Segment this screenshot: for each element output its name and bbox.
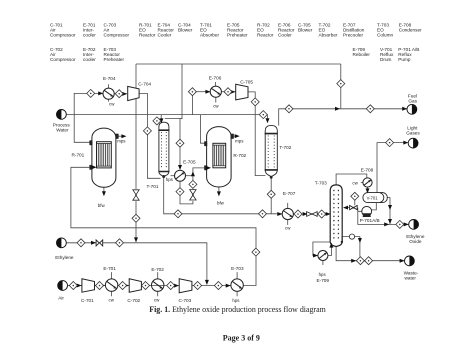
node T-701 water inlet arrow [159, 118, 163, 123]
pump P-701 A/B [362, 206, 372, 217]
svg-text:Water: Water [56, 128, 69, 133]
wire R-702 bfw stub [218, 187, 220, 195]
node arrow ethylene join air [205, 280, 209, 285]
node diamond E-706 out [224, 88, 232, 96]
node diamond E-706 feed [188, 88, 196, 96]
wire E-704 top stub [107, 84, 109, 88]
node E-701 inlet arrow [100, 284, 105, 288]
svg-text:R-701: R-701 [72, 152, 85, 157]
wire T-701 bottoms to header [164, 177, 283, 214]
svg-text:E-708: E-708 [361, 167, 374, 172]
node diamond T-701 bottoms [174, 210, 182, 218]
svg-text:Blower: Blower [298, 27, 313, 32]
svg-text:bfw: bfw [98, 203, 106, 208]
node C-704 inlet arrow [122, 92, 127, 96]
node diamond combined feed [214, 282, 222, 290]
svg-text:cw: cw [213, 104, 219, 109]
svg-text:cooler: cooler [83, 32, 96, 37]
wire C-704 bottom recycle to feed [135, 99, 137, 242]
node arrow side pot down [358, 238, 362, 243]
svg-text:R-702: R-702 [233, 153, 246, 158]
node arrow after E-707 [303, 212, 308, 216]
node diamond recycle valve [132, 214, 140, 222]
node diamond EO product [396, 220, 404, 228]
svg-text:Reactor: Reactor [257, 32, 274, 37]
node T-702 water inlet arrow [266, 118, 270, 123]
node diamond ethylene 2 [116, 239, 124, 247]
wire R-702 effluent riser [192, 96, 205, 144]
wire E-708 to V-701 [367, 187, 369, 191]
wire E-705 outlet loop to R-702 [180, 168, 205, 204]
node T-703 feed arrow [326, 212, 331, 216]
node diamond ethylene feed [77, 239, 85, 247]
svg-text:cw: cw [285, 226, 291, 231]
node diamond T-702 water [259, 111, 267, 119]
svg-text:Pump: Pump [398, 57, 411, 62]
node arrow wastewater mid [351, 259, 356, 263]
wire header to T-703 feed [293, 213, 330, 215]
valve R-702 feed [190, 190, 196, 200]
wire feed header from E-703 [71, 167, 256, 285]
node diamond R-702 feed [189, 180, 197, 188]
node diamond T-701 water [153, 117, 161, 125]
wire ethylene line [66, 243, 207, 284]
valve T-703 feed [307, 212, 318, 217]
node diamond air feed [69, 282, 77, 290]
svg-text:Cooler: Cooler [278, 32, 292, 37]
wire E-707 bottom stub [287, 220, 289, 225]
svg-text:E-705: E-705 [183, 160, 196, 165]
wire EO product line [404, 223, 409, 225]
svg-text:Drum: Drum [380, 57, 392, 62]
valve recycle to feed [133, 190, 139, 200]
node diamond fuel gas [366, 105, 374, 113]
node diamond E-705 out [176, 188, 184, 196]
svg-text:Reactor: Reactor [139, 32, 156, 37]
svg-text:C-704: C-704 [138, 82, 151, 87]
svg-text:Condenser: Condenser [399, 27, 422, 32]
wire E-705 right stub [186, 175, 193, 177]
svg-text:Page 3 of 9: Page 3 of 9 [223, 334, 260, 343]
node diamond after C-702 [142, 282, 150, 290]
heat-exchanger E-706 [210, 86, 221, 97]
node T-703 reflux arrow [343, 206, 348, 210]
node diamond header [259, 210, 267, 218]
svg-text:E-703: E-703 [231, 266, 244, 271]
wire R-701 effluent to E-704 [74, 93, 103, 142]
svg-text:Reboiler: Reboiler [353, 52, 371, 57]
node R-702 feed arrow [206, 166, 211, 170]
heat-exchanger E-701 [105, 279, 117, 291]
node ethylene valve arrow [91, 241, 96, 245]
svg-text:Preheater: Preheater [104, 57, 125, 62]
compressor C-701 [82, 279, 95, 292]
compressor C-702 [129, 279, 141, 292]
wire E-709 bottom stub [322, 261, 324, 266]
svg-text:Gas: Gas [408, 98, 417, 103]
compressor C-703 [179, 279, 192, 293]
svg-text:Compressor: Compressor [50, 32, 76, 37]
node diamond after C-701 [96, 282, 104, 290]
node diamond after E-702 [167, 282, 175, 290]
node Wastewater product [405, 256, 415, 266]
vessel V-701 [363, 193, 387, 203]
svg-text:cw: cw [352, 180, 358, 185]
svg-text:Ethylene: Ethylene [406, 234, 425, 239]
svg-text:Light: Light [407, 125, 418, 130]
svg-text:T-701: T-701 [147, 184, 159, 189]
node Light Gases product [408, 138, 418, 148]
compressor C-704 [128, 86, 139, 100]
node arrow into E-705 top [178, 165, 182, 170]
svg-text:T-702: T-702 [279, 145, 291, 150]
wire recycle downcomer from H3 [340, 64, 342, 109]
svg-text:T-703: T-703 [315, 180, 327, 185]
node R-702 mps outlet [235, 134, 240, 138]
reactor R-702 [205, 127, 234, 187]
node T-703 side dot [341, 241, 343, 243]
node arrow V-701 cap down [388, 219, 392, 224]
svg-text:Absorber: Absorber [200, 32, 219, 37]
node R-701 bfw [102, 191, 106, 196]
wire C-705 discharge to T-702 bottom [248, 92, 265, 176]
wire E-706 top stub [215, 82, 217, 86]
node diamond T-702 bottoms [267, 190, 275, 198]
node arrow into light gases [403, 141, 408, 145]
heat-exchanger E-703 [231, 279, 243, 291]
svg-text:bfw: bfw [217, 200, 225, 205]
node arrow V-701 cap mid [388, 205, 392, 210]
node Fuel Gas product [407, 104, 417, 114]
svg-text:Cooler: Cooler [158, 32, 172, 37]
svg-text:Compressor: Compressor [50, 57, 76, 62]
node diamond R-701 effluent [87, 89, 95, 97]
svg-text:Process: Process [53, 122, 71, 127]
wire V-701 to light gases [377, 143, 408, 193]
node arrow R-702 riser up [191, 171, 195, 176]
svg-text:Compressor: Compressor [104, 32, 130, 37]
svg-text:water: water [405, 276, 417, 281]
svg-text:cw: cw [109, 297, 115, 302]
svg-text:Gases: Gases [406, 131, 420, 136]
svg-text:Preheater: Preheater [227, 32, 248, 37]
svg-text:hps: hps [232, 298, 240, 303]
wire pump discharge to EO product [358, 211, 396, 224]
svg-text:Fig. 1. Ethylene oxide product: Fig. 1. Ethylene oxide production proces… [149, 305, 326, 314]
node C-702 inlet arrow [124, 284, 129, 288]
node diamond after C-703 [194, 282, 202, 290]
node R-702 bfw [217, 191, 221, 196]
svg-text:C-701: C-701 [81, 298, 94, 303]
node diamond feed riser [252, 248, 260, 256]
node T-703 reboiler return arrow [329, 243, 333, 248]
column T-703 [330, 185, 342, 247]
node diamond wastewater 2 [365, 257, 373, 265]
heat-exchanger E-707 [282, 208, 293, 219]
wire V-701 cap to EO junction [387, 198, 390, 225]
node arrow fuel gas mid [335, 107, 340, 111]
wire V-701 bottom to pump [372, 203, 377, 210]
node E-703 inlet arrow [226, 284, 231, 288]
node arrow into E-706 [205, 90, 210, 94]
wire E-706 to C-705 [221, 91, 235, 93]
wire T-703 overhead to E-708 [336, 174, 367, 185]
valve ethylene feed [96, 240, 103, 246]
svg-text:E-701: E-701 [103, 266, 116, 271]
node diamond T-702 overhead [285, 105, 293, 113]
node diamond T-703 feed [318, 210, 326, 218]
svg-text:E-704: E-704 [103, 76, 116, 81]
node arrow into wastewater [400, 259, 405, 263]
node T-703 side pot [349, 234, 354, 239]
valve reflux [350, 205, 358, 209]
svg-text:cw: cw [109, 101, 115, 106]
wire recycle branch to E-705 [180, 64, 182, 167]
node diamond reflux [351, 192, 359, 200]
wire E-709 drawoff [313, 242, 330, 256]
node diamond recycle split [337, 80, 345, 88]
node arrow into E-709 [313, 254, 318, 258]
wire wastewater line [336, 247, 404, 261]
wire E-707 top stub [287, 203, 289, 209]
node diamond E-704 out [115, 90, 123, 98]
wire R-701 mps arrow line [118, 135, 124, 137]
compressor C-705 [236, 84, 248, 100]
svg-text:E-702: E-702 [151, 267, 164, 272]
wire T-701 overhead [165, 118, 182, 120]
column T-702 [265, 125, 278, 176]
svg-text:Column: Column [377, 32, 394, 37]
wire recycle header H3 [136, 63, 341, 65]
wire E-705 left stub [171, 175, 175, 177]
svg-text:Precooler: Precooler [343, 32, 364, 37]
node diamond E-707 out [294, 210, 302, 218]
heat-exchanger E-709 [318, 251, 328, 261]
wire E-703 stubs [236, 272, 238, 296]
svg-text:E-706: E-706 [209, 75, 222, 80]
node C-701 inlet arrow [77, 284, 82, 288]
node C-705 inlet arrow [230, 90, 235, 94]
svg-text:E-707: E-707 [283, 191, 296, 196]
wire T-703 side pot [342, 237, 360, 257]
heat-exchanger E-705 [175, 170, 186, 181]
node Air feed [58, 281, 68, 291]
node Ethylene Oxide product [409, 220, 419, 230]
wire E-701 stubs [111, 272, 113, 296]
svg-text:cw: cw [154, 297, 160, 302]
svg-text:hps: hps [319, 272, 327, 277]
wire E-704 bottom stub [108, 99, 110, 101]
node diamond wastewater 1 [356, 257, 364, 265]
reactor R-701 [90, 128, 118, 187]
svg-text:Air: Air [58, 296, 64, 301]
heat-exchanger E-708 [363, 178, 372, 187]
node arrow EO mid [384, 222, 389, 226]
svg-text:C-705: C-705 [240, 80, 253, 85]
node arrow into E-704 [98, 91, 103, 95]
node arrow into EO product [404, 222, 409, 226]
svg-text:C-703: C-703 [179, 298, 192, 303]
node C-703 inlet arrow [174, 284, 179, 288]
node diamond after E-701 [119, 282, 127, 290]
svg-text:Ethylene: Ethylene [55, 255, 74, 260]
svg-text:Absorber: Absorber [319, 32, 338, 37]
wire air line [68, 285, 231, 287]
wire reflux diamond stem [354, 200, 356, 206]
wire process water header [66, 114, 268, 116]
svg-text:Oxide: Oxide [409, 239, 422, 244]
wire E-708 cw stub [361, 182, 363, 184]
node diamond C-705 out [251, 98, 259, 106]
wire process water drop into T-702 [267, 115, 269, 120]
svg-text:V-701: V-701 [367, 195, 379, 200]
wire process water drop into T-701 [160, 115, 162, 121]
heat-exchanger E-704 [103, 88, 114, 99]
wire E-704 to C-704 [114, 93, 127, 95]
wire R-701 bfw stub [103, 187, 105, 194]
node diamond E-705 feed [176, 139, 184, 147]
wire E-709 return [328, 243, 332, 255]
svg-text:mps: mps [235, 139, 244, 144]
node R-701 mps outlet [121, 134, 126, 138]
svg-text:Blower: Blower [178, 27, 193, 32]
wire E-706 bottom stub [215, 97, 217, 102]
wire E-706 inlet stub [196, 91, 210, 93]
svg-text:E-709: E-709 [317, 278, 330, 283]
svg-text:mps: mps [117, 139, 126, 144]
wire T-702 bottoms [270, 178, 272, 214]
svg-text:hps: hps [166, 177, 174, 182]
wire reflux line [344, 208, 358, 212]
node diamond C-704 out [143, 127, 151, 135]
column T-701 [158, 122, 169, 176]
node Ethylene feed [57, 238, 67, 248]
wire C-704 riser [135, 64, 137, 88]
node V-701 inlet arrow [366, 188, 370, 193]
wire E-702 stubs [157, 272, 159, 296]
heat-exchanger E-702 [152, 279, 164, 291]
svg-text:P-701A/B: P-701A/B [360, 218, 380, 223]
wire C-704 discharge to T-701 bottom [139, 93, 160, 178]
svg-text:cooler: cooler [83, 57, 96, 62]
node diamond light gases [386, 139, 394, 147]
svg-text:C-702: C-702 [127, 298, 140, 303]
node Process Water feed [57, 110, 67, 120]
wire T-702 overhead to fuel gas [279, 109, 408, 126]
node arrow recycle join feed [134, 237, 138, 242]
node arrow into fuel gas [402, 107, 407, 111]
node arrow into E-707 [277, 212, 282, 216]
wire R-702 mps arrow line [233, 135, 238, 137]
node R-701 feed arrow [92, 165, 97, 169]
